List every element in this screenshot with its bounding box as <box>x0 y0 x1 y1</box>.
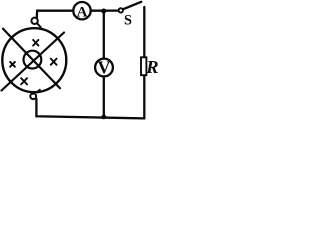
svg-text:S: S <box>124 13 132 29</box>
svg-text:R: R <box>145 57 158 77</box>
svg-text:A: A <box>77 4 88 20</box>
svg-text:V: V <box>98 58 111 78</box>
